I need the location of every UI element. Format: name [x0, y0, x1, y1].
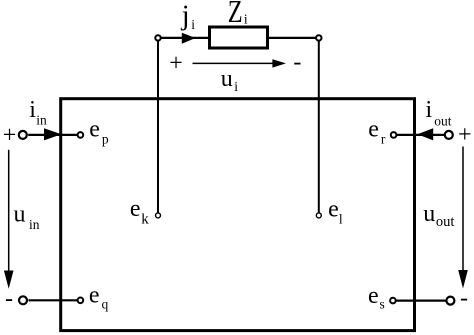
- svg-text:out: out: [436, 214, 455, 230]
- label j_i: [181, 0, 196, 32]
- svg-text:s: s: [380, 296, 385, 311]
- label i_out: [426, 97, 452, 128]
- svg-text:i: i: [244, 11, 248, 26]
- voltage arrow u_in: [4, 150, 14, 289]
- svg-text:Z: Z: [228, 0, 243, 29]
- svg-text:l: l: [339, 212, 343, 227]
- svg-text:+: +: [3, 122, 17, 148]
- svg-text:e: e: [368, 117, 379, 143]
- svg-text:r: r: [381, 132, 386, 147]
- wire: top-left node down to e_k: [157, 41, 159, 213]
- terminal output plus: [445, 131, 453, 139]
- svg-text:-: -: [5, 286, 13, 312]
- label Z_i: [228, 0, 248, 29]
- wire: Z_i to top-right node: [268, 37, 317, 39]
- label i_in: [29, 97, 47, 127]
- svg-text:+: +: [458, 122, 472, 148]
- wire: input plus terminal to e_p: [28, 134, 77, 136]
- svg-text:j: j: [181, 0, 190, 32]
- node top-left: [155, 35, 160, 40]
- node e_s: [390, 298, 396, 304]
- wire: e_r to output plus terminal: [397, 134, 445, 136]
- current arrow i_out: [417, 128, 433, 140]
- node e_r: [391, 132, 397, 138]
- current arrow j_i: [182, 33, 196, 44]
- svg-text:u: u: [423, 201, 435, 227]
- svg-text:-: -: [293, 49, 301, 75]
- wire: top-right node down to e_l: [318, 41, 320, 213]
- node e_l: [316, 213, 321, 218]
- current arrow i_in: [44, 128, 61, 140]
- label e_s: [368, 283, 385, 311]
- terminal input plus: [19, 131, 27, 139]
- svg-text:e: e: [328, 197, 339, 223]
- label u_i: [221, 66, 239, 94]
- svg-text:i: i: [191, 17, 195, 32]
- svg-text:e: e: [89, 283, 100, 309]
- svg-text:in: in: [29, 217, 40, 232]
- svg-text:e: e: [368, 283, 379, 309]
- impedance Z_i (rectangle): [210, 27, 268, 48]
- svg-text:p: p: [102, 132, 109, 147]
- terminal output minus: [446, 297, 454, 305]
- svg-text:i: i: [426, 97, 433, 123]
- wire: top-left node to Z_i: [160, 37, 209, 39]
- label u_out: [423, 201, 454, 230]
- node top-right: [316, 35, 321, 40]
- label e_r: [368, 117, 386, 147]
- voltage arrow u_i: [193, 59, 287, 67]
- terminal input minus: [19, 296, 27, 304]
- svg-text:q: q: [102, 296, 109, 311]
- label e_l: [328, 197, 343, 227]
- label e_p: [89, 117, 109, 147]
- svg-text:k: k: [141, 212, 149, 228]
- svg-text:-: -: [460, 286, 468, 312]
- svg-text:u: u: [221, 66, 233, 92]
- two-port network box: [61, 99, 415, 331]
- svg-text:u: u: [14, 202, 26, 228]
- svg-text:e: e: [130, 196, 141, 222]
- svg-text:in: in: [36, 112, 47, 127]
- svg-text:out: out: [434, 113, 452, 128]
- wire: e_s to output minus terminal: [396, 300, 446, 302]
- node e_k: [156, 213, 161, 218]
- node e_p: [78, 132, 84, 138]
- svg-text:+: +: [169, 50, 183, 76]
- label u_in: [14, 202, 40, 233]
- wire: input minus terminal to e_q: [28, 299, 77, 301]
- svg-text:i: i: [234, 79, 238, 94]
- label e_k: [130, 196, 149, 228]
- node e_q: [78, 298, 84, 304]
- svg-text:e: e: [89, 117, 100, 143]
- label e_q: [89, 283, 109, 312]
- voltage arrow u_out: [458, 147, 468, 289]
